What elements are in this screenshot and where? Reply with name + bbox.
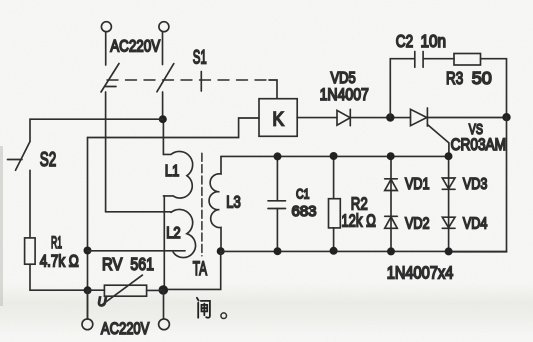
annotation gate character (197, 298, 210, 318)
junction dot C1 top (274, 152, 282, 160)
wire pole2 down to node A (162, 92, 164, 119)
terminal top-right (159, 22, 169, 32)
wire bottom-right terminal (163, 290, 165, 319)
wire left bus corner to K (88, 118, 260, 138)
capacitor C1 plates (268, 201, 286, 209)
svg-text:R1: R1 (51, 233, 62, 252)
junction dot VD2 bottom (387, 247, 395, 255)
terminal bottom-left (82, 319, 93, 330)
transformer L2 winding (171, 209, 196, 257)
terminal top-left (101, 22, 111, 32)
svg-text:50: 50 (472, 68, 492, 88)
svg-text:AC220V: AC220V (101, 320, 150, 339)
svg-text:AC220V: AC220V (110, 37, 161, 56)
wire C2 to R3 (423, 58, 454, 60)
svg-text:C1: C1 (296, 186, 310, 202)
svg-text:TA: TA (193, 259, 208, 279)
wire R1 bottom to bottom rail (30, 264, 88, 290)
svg-text:12k Ω: 12k Ω (341, 212, 376, 231)
S1 link corner to relay K (269, 80, 277, 99)
thyristor VS triangle (411, 109, 427, 125)
junction dot VD4 bottom (445, 247, 453, 255)
svg-text:L3: L3 (226, 193, 240, 212)
wire L3 top to upper bus (221, 155, 449, 157)
svg-text:683: 683 (292, 204, 317, 220)
varistor RV body (104, 285, 146, 296)
svg-text:L1: L1 (165, 163, 179, 181)
varistor RV wire through bottom rail (88, 289, 164, 291)
svg-text:C2: C2 (396, 33, 413, 52)
svg-text:10n: 10n (421, 32, 447, 51)
annotation full stop (221, 313, 227, 319)
svg-text:CR03AM: CR03AM (451, 136, 506, 155)
wire R3 to right rail (481, 59, 507, 117)
svg-text:VD4: VD4 (463, 215, 487, 233)
transformer L1 winding (163, 151, 192, 198)
wire L1 bottom down to bottom rail (163, 196, 165, 290)
left bus vertical (87, 138, 89, 320)
resistor R1 body (25, 238, 35, 264)
thyristor VS gate lead (427, 125, 449, 157)
wire L3 bottom to bottom rail (163, 251, 220, 289)
S1 actuator tick (200, 72, 202, 92)
wire L2 bottom to left bus (88, 250, 186, 252)
wire tap to L2 top (106, 211, 171, 213)
thyristor VS cathode bar (426, 108, 428, 126)
resistor R2 body (329, 199, 341, 228)
capacitor C1 bottom lead (276, 209, 278, 252)
diode VD3 triangle (442, 178, 455, 189)
svg-text:K: K (273, 109, 284, 130)
junction dot R2 top (330, 152, 338, 160)
wire node A down to L1 (162, 119, 164, 154)
wire S2 to R1 (29, 170, 31, 238)
terminal bottom-right (159, 319, 170, 330)
wire K right to VD5 (297, 117, 337, 119)
relay K box (259, 99, 297, 137)
switch blade pole 2 of S1 (157, 64, 174, 92)
svg-text:VD5: VD5 (331, 70, 356, 87)
svg-text:VD1: VD1 (405, 175, 430, 193)
svg-text:S2: S2 (40, 148, 57, 170)
varistor RV diagonal stroke (101, 275, 142, 305)
transformer L3 winding (209, 156, 221, 251)
switch S2 blade (16, 142, 31, 171)
wire VD5 to node B (350, 117, 410, 119)
svg-text:R3: R3 (446, 69, 463, 88)
diode VD1 lead (390, 156, 392, 252)
wire node A left to S2 (30, 119, 163, 141)
junction dot VD3 top (445, 152, 453, 160)
diode VD4 triangle (442, 217, 455, 228)
diode VD2 triangle (385, 217, 398, 229)
resistor R2 top lead (333, 156, 335, 199)
node A junction dot (159, 115, 167, 123)
S1 mechanical link dashed line (107, 79, 269, 81)
switch S2 contact tick (8, 159, 23, 161)
svg-text:S1: S1 (193, 48, 207, 69)
diode VD3 lead (448, 156, 450, 252)
svg-text:RV: RV (102, 255, 123, 274)
wire from top-left terminal down to switch (105, 32, 107, 65)
svg-text:4.7k Ω: 4.7k Ω (40, 252, 79, 271)
lower bus wire (221, 250, 507, 252)
diode VD2 cathode bar (385, 215, 398, 217)
wire VS cathode to right rail (427, 117, 506, 119)
junction dot left bus / bottom rail (84, 286, 92, 294)
diode VD5 triangle (337, 110, 350, 125)
junction dot bottom rail / L2 (159, 285, 169, 295)
svg-text:1N4007: 1N4007 (320, 86, 369, 105)
junction dot VD1 top (387, 152, 395, 160)
junction dot left bus / L2 bottom (84, 247, 92, 255)
svg-text:VD3: VD3 (463, 175, 487, 193)
wire from top-right terminal down to switch (162, 32, 164, 65)
junction dot R2 bottom (330, 247, 338, 255)
switch blade pole 1 of S1 (101, 64, 119, 93)
wire bottom-left terminal (87, 290, 89, 319)
svg-text:VD2: VD2 (405, 215, 430, 233)
transformer core (201, 153, 203, 256)
svg-text:561: 561 (130, 256, 154, 275)
junction dot C1 bottom (274, 247, 282, 255)
svg-text:1N4007x4: 1N4007x4 (387, 263, 454, 283)
right rail vertical (449, 117, 507, 252)
diode VD1 triangle (385, 179, 398, 190)
diode VD5 cathode bar (349, 109, 351, 125)
resistor R3 body (454, 54, 481, 66)
junction dot L3 bottom (217, 247, 225, 255)
wire pole1 down to transformer tap (105, 92, 107, 212)
resistor R2 bottom lead (333, 228, 335, 252)
diode VD1 cathode bar (385, 178, 398, 180)
node B junction dot (386, 113, 394, 121)
node C junction dot right rail (502, 113, 510, 121)
diode VD4 anode bar (442, 227, 455, 229)
capacitor C2 plates (415, 52, 423, 68)
capacitor C1 top lead (276, 156, 278, 200)
contact tick pole 1 (106, 86, 117, 88)
diode VD3 anode bar (442, 188, 455, 190)
svg-text:U: U (98, 294, 108, 309)
wire node B up to C2 (390, 59, 414, 118)
svg-text:L2: L2 (166, 225, 180, 243)
